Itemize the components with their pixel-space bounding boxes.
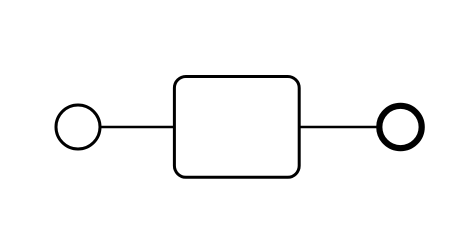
rounded rectangle box — [174, 77, 299, 178]
wire box to right circle — [299, 126, 377, 129]
left circle node — [56, 105, 100, 149]
right circle node (thick) — [379, 106, 421, 148]
wire left circle to box — [100, 126, 174, 129]
